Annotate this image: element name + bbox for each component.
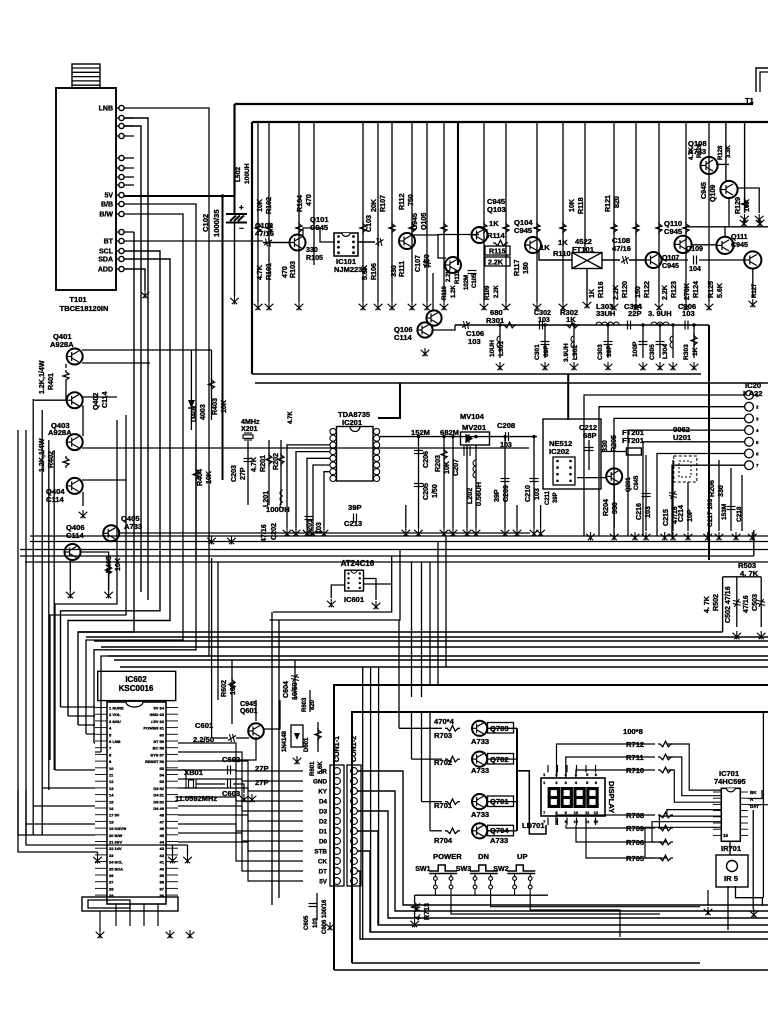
svg-text:MV104: MV104	[460, 412, 485, 421]
transistor Q109 C945	[720, 181, 737, 198]
svg-text:2 VOL: 2 VOL	[109, 712, 121, 717]
svg-text:2.2K: 2.2K	[446, 269, 452, 282]
svg-text:SDA: SDA	[98, 257, 113, 264]
svg-text:22P: 22P	[628, 309, 642, 318]
svg-text:BC 58: BC 58	[153, 746, 165, 751]
wire Q109 drop	[725, 122, 727, 181]
svg-text:C945: C945	[634, 475, 640, 490]
svg-text:C105: C105	[472, 273, 478, 288]
ground	[327, 599, 336, 607]
svg-text:53: 53	[160, 779, 165, 784]
svg-text:R713: R713	[423, 903, 431, 920]
svg-text:R301: R301	[486, 316, 505, 325]
ground	[704, 907, 713, 915]
wire Q405 out	[119, 532, 530, 534]
svg-text:4. 7K: 4. 7K	[414, 902, 422, 920]
wire IR701 pins	[727, 886, 729, 930]
resistor R403 10K	[211, 350, 213, 420]
svg-text:1K: 1K	[558, 238, 568, 247]
capacitor C215 47/16	[672, 460, 674, 531]
resistor R713 4.7K	[414, 895, 416, 902]
capacitor C301 69P stub	[544, 325, 546, 358]
resistor R704	[445, 828, 460, 834]
wire thick drop x458	[457, 122, 459, 265]
transistor Q104 C945	[525, 237, 541, 253]
tuner unused pin stubs	[124, 117, 134, 119]
svg-text:IR 5: IR 5	[724, 874, 739, 883]
svg-text:5V: 5V	[104, 193, 113, 200]
svg-text:682M: 682M	[440, 428, 459, 437]
svg-text:IC202: IC202	[549, 447, 569, 456]
grounds NE512 row	[586, 532, 595, 540]
svg-text:330: 330	[306, 246, 318, 254]
ground	[740, 218, 749, 226]
capacitor C218 153M	[730, 468, 732, 531]
capacitor C210 103	[533, 437, 535, 505]
transistor Q702 A733	[472, 752, 487, 767]
svg-text:D401: D401	[190, 405, 198, 422]
wire top supply bus	[235, 103, 754, 105]
display pin stubs bottom	[547, 818, 549, 826]
svg-text:R206: R206	[708, 480, 716, 497]
grounds under drops	[254, 302, 263, 310]
svg-text:10K: 10K	[114, 557, 122, 571]
wire Q110-Q111 tie	[691, 244, 717, 246]
svg-text:/-5V 62: /-5V 62	[151, 719, 165, 724]
grounds under IC602	[96, 930, 105, 938]
svg-text:330: 330	[390, 265, 398, 277]
svg-text:27P: 27P	[239, 467, 247, 480]
wire feeds into IC602 left	[61, 706, 96, 708]
ground	[230, 296, 239, 304]
transistor Q404 C114	[67, 478, 83, 494]
svg-text:Q109: Q109	[709, 185, 717, 202]
wire XB01 wiring	[166, 770, 186, 779]
boxed resistor R115	[485, 246, 510, 255]
svg-text:10K: 10K	[205, 470, 213, 484]
wire switch staircase 3	[530, 895, 620, 937]
svg-text:47/16: 47/16	[255, 229, 274, 238]
svg-text:R703: R703	[434, 731, 452, 740]
svg-text:R119: R119	[442, 285, 448, 300]
svg-text:R502: R502	[712, 594, 720, 611]
svg-text:D4: D4	[319, 799, 328, 806]
svg-text:R106: R106	[370, 263, 378, 280]
svg-text:60: 60	[160, 732, 165, 737]
grounds left lower	[93, 855, 102, 863]
svg-text:ADD: ADD	[98, 267, 113, 274]
svg-text:GND 63: GND 63	[150, 712, 165, 717]
svg-text:C218: C218	[736, 506, 743, 522]
svg-text:2.2K: 2.2K	[661, 284, 669, 300]
display pin stubs top	[547, 765, 549, 772]
svg-text:R129: R129	[734, 197, 742, 214]
svg-text:4.7K: 4.7K	[689, 147, 695, 160]
svg-text:Q201: Q201	[626, 477, 632, 492]
svg-text:POWER 61: POWER 61	[143, 726, 164, 731]
svg-text:103: 103	[644, 506, 652, 518]
svg-text:150: 150	[634, 286, 642, 298]
svg-text:MV201: MV201	[462, 423, 487, 432]
svg-text:15: 15	[109, 799, 114, 804]
wire nested bundle from mid to right	[55, 420, 117, 770]
svg-text:3 6/4U: 3 6/4U	[109, 719, 121, 724]
svg-text:IC201: IC201	[342, 418, 362, 427]
wire nested frame bottoms	[357, 771, 768, 905]
svg-text:17 5V: 17 5V	[109, 813, 120, 818]
svg-text:54: 54	[160, 773, 165, 778]
svg-text:100P: 100P	[632, 341, 639, 357]
capacitor C103 47/16 series	[376, 238, 384, 246]
svg-text:39P: 39P	[553, 492, 559, 503]
svg-text:103: 103	[315, 522, 323, 534]
svg-text:47/16: 47/16	[742, 595, 750, 613]
wire BT line (signal row feed)	[124, 240, 263, 242]
wire Q105 link	[438, 235, 446, 258]
svg-text:Q105: Q105	[420, 213, 428, 230]
transistor Q110 C945	[674, 236, 691, 253]
ground	[749, 909, 758, 917]
svg-text:C114: C114	[394, 333, 413, 342]
svg-text:12: 12	[109, 779, 114, 784]
resistor R602 10K	[231, 660, 233, 724]
ground	[757, 631, 766, 639]
svg-text:R602: R602	[220, 680, 228, 697]
svg-text:10K: 10K	[568, 198, 576, 212]
svg-text:R118: R118	[577, 197, 585, 214]
wire CON1 row feeds from IC602	[178, 743, 303, 771]
ground	[104, 590, 113, 598]
wire Q101 collector to IC101	[303, 228, 334, 242]
resistor R303 1K stub	[693, 325, 695, 358]
svg-text:4.7K: 4.7K	[288, 411, 294, 424]
svg-text:Q107: Q107	[662, 254, 679, 262]
wire Q111 feed	[724, 227, 726, 237]
capacitor C201 103	[305, 517, 314, 520]
ground	[141, 290, 150, 298]
wire mid verticals	[398, 620, 400, 712]
resistor R114 1K	[493, 240, 508, 246]
ground	[66, 590, 75, 598]
wire R712 row	[557, 744, 656, 778]
svg-text:1/50: 1/50	[431, 484, 439, 498]
inductor L304 stub	[672, 325, 674, 358]
svg-text:R204: R204	[602, 499, 610, 516]
wire switch staircase 2	[451, 895, 660, 914]
svg-text:10: 10	[574, 819, 579, 824]
svg-text:330: 330	[717, 485, 725, 497]
capacitor C216 103	[645, 455, 647, 531]
wire row2 right end down	[708, 325, 710, 560]
wire FT101 out	[602, 259, 620, 261]
svg-text:ST 59: ST 59	[153, 739, 164, 744]
svg-text:3. 9UH: 3. 9UH	[648, 309, 672, 318]
svg-text:470: 470	[281, 266, 289, 278]
svg-text:C605: C605	[304, 915, 310, 930]
F-connector on tuner	[72, 64, 100, 88]
svg-text:A928A: A928A	[48, 428, 72, 437]
svg-text:L202: L202	[466, 488, 474, 504]
wire Q403 out	[82, 447, 529, 449]
svg-text:R115: R115	[489, 248, 506, 256]
svg-text:SW3: SW3	[456, 865, 471, 873]
wire RF signal row	[263, 242, 290, 244]
svg-text:C203: C203	[230, 465, 238, 482]
svg-text:74HC595: 74HC595	[714, 777, 746, 786]
svg-text:1K: 1K	[540, 243, 550, 252]
svg-text:46: 46	[160, 826, 165, 831]
svg-text:103: 103	[533, 488, 541, 500]
resistor R301 zigzag	[502, 322, 517, 328]
wire Q104 out to FT101 row	[539, 251, 572, 260]
svg-text:C503: C503	[751, 594, 759, 611]
svg-text:180: 180	[522, 262, 530, 274]
svg-text:69P: 69P	[543, 345, 550, 357]
svg-text:L302: L302	[572, 345, 579, 360]
inductor L202 0.56UH	[475, 445, 477, 505]
svg-text:4003: 4003	[199, 404, 207, 420]
display pin numbers	[543, 772, 599, 824]
transistor Q704 A733	[472, 823, 487, 838]
resistor R404 10K	[195, 440, 197, 560]
wire verticals into display section	[362, 667, 364, 940]
capacitor C206	[418, 437, 420, 470]
svg-text:U201: U201	[673, 433, 692, 442]
svg-text:20K: 20K	[370, 198, 378, 212]
ground	[207, 536, 216, 544]
svg-text:270K: 270K	[683, 282, 691, 300]
svg-text:R105: R105	[306, 254, 323, 262]
svg-text:1N4148: 1N4148	[282, 730, 288, 752]
svg-text:STB: STB	[314, 849, 327, 856]
ground	[755, 214, 764, 222]
IC701 side pin stubs	[713, 792, 748, 835]
svg-text:38: 38	[160, 880, 165, 885]
switch contact circles	[434, 874, 533, 889]
wire outer bottom lines	[334, 969, 768, 971]
svg-text:C208: C208	[497, 421, 515, 430]
ground	[326, 922, 335, 930]
wire IC201 left pin fan	[287, 445, 330, 528]
svg-text:D0: D0	[319, 839, 328, 846]
wire Q106 out	[432, 325, 455, 330]
svg-text:103: 103	[500, 441, 512, 449]
capacitor C502	[733, 599, 741, 607]
svg-text:POWER: POWER	[433, 852, 462, 861]
svg-text:R403: R403	[211, 398, 219, 415]
transistor Q405 A733	[103, 525, 119, 541]
wire Q404 stub right	[82, 479, 126, 481]
svg-text:10/50: 10/50	[291, 682, 299, 700]
ground	[293, 756, 302, 764]
svg-text:−: −	[239, 224, 244, 233]
transistor Q105	[445, 257, 461, 273]
wire SDA line down	[68, 259, 170, 716]
wire Q404 link	[82, 492, 84, 506]
capacitor C106 103 series	[462, 321, 470, 329]
svg-text:10K: 10K	[256, 198, 264, 212]
resistor R206 330	[718, 460, 720, 531]
transistor Q112	[744, 251, 761, 268]
wire RF box bottom	[252, 373, 701, 375]
svg-text:10K: 10K	[220, 399, 228, 413]
svg-text:B/B: B/B	[101, 202, 113, 209]
svg-text:4.7K: 4.7K	[250, 456, 258, 472]
wire display section inner frame	[352, 712, 768, 963]
IC IC201 TDA8735	[337, 427, 374, 482]
svg-text:27P: 27P	[255, 764, 269, 773]
resistor R603 820	[309, 690, 311, 712]
capacitor C214 10P	[687, 482, 689, 531]
node T1 connector top right	[756, 68, 768, 92]
svg-text:18: 18	[109, 819, 114, 824]
ground	[227, 536, 236, 544]
svg-text:C502 47/16: C502 47/16	[724, 586, 732, 623]
svg-text:BK: BK	[750, 790, 757, 795]
svg-text:R401: R401	[47, 373, 55, 390]
wire B/B line down	[94, 204, 196, 743]
transistor Q401 A928A	[67, 349, 83, 365]
wire Q112 stub	[752, 268, 754, 298]
svg-text:T1: T1	[745, 96, 755, 105]
resistor R701	[445, 799, 460, 805]
svg-text:39: 39	[160, 873, 165, 878]
capacitor C109 104	[661, 259, 688, 261]
capacitor C102 electrolytic 1000/35	[234, 196, 236, 213]
svg-text:1K: 1K	[588, 288, 596, 298]
svg-text:D3 52: D3 52	[153, 786, 164, 791]
inductor L302 3.9UH stub	[573, 325, 575, 358]
svg-text:FT201: FT201	[622, 436, 645, 445]
svg-text:1K: 1K	[692, 347, 699, 356]
wire collector row	[686, 226, 768, 228]
svg-text:3.3K: 3.3K	[726, 145, 732, 158]
svg-text:1 NURE: 1 NURE	[109, 706, 124, 711]
svg-text:AT24C16: AT24C16	[341, 559, 375, 568]
transistor Q102 C945	[399, 233, 415, 249]
svg-text:R704: R704	[434, 836, 453, 845]
display digits 8888 (seven-segment)	[548, 787, 560, 808]
svg-text:LNB: LNB	[99, 106, 113, 113]
svg-text:C107: C107	[414, 255, 422, 272]
capacitor C107	[423, 260, 431, 268]
capacitor C302	[540, 321, 543, 330]
wire left vertical bundle	[17, 430, 19, 835]
svg-text:C202: C202	[270, 523, 278, 540]
svg-text:C305: C305	[649, 344, 656, 360]
svg-text:102M: 102M	[464, 275, 470, 290]
wire left edge of RF box	[251, 122, 253, 374]
svg-text:D601: D601	[304, 737, 310, 752]
svg-text:26: 26	[109, 873, 114, 878]
svg-text:40: 40	[160, 866, 165, 871]
svg-text:C945: C945	[662, 262, 679, 270]
svg-text:68P: 68P	[583, 431, 597, 440]
svg-text:R103: R103	[289, 261, 297, 278]
svg-text:1.2K: 1.2K	[451, 285, 457, 298]
svg-text:820: 820	[613, 196, 621, 208]
wire IR701 to IC701	[729, 841, 731, 855]
svg-text:KY: KY	[318, 789, 328, 796]
wire corner up right	[753, 530, 755, 556]
svg-text:R121: R121	[604, 195, 612, 212]
svg-text:10K: 10K	[443, 460, 451, 474]
svg-text:470*4: 470*4	[434, 717, 455, 726]
svg-text:A733: A733	[471, 810, 489, 819]
svg-text:27: 27	[109, 880, 114, 885]
resistor R204 330	[613, 484, 615, 528]
svg-text:R202: R202	[272, 453, 280, 470]
diode D601 1N4148	[291, 725, 303, 747]
wire IC20x pin fan	[584, 395, 745, 536]
wire display section outer frame	[334, 685, 768, 970]
svg-text:16: 16	[109, 806, 114, 811]
wire FT101 bottom lead	[586, 269, 588, 301]
svg-text:5V 64: 5V 64	[154, 706, 165, 711]
svg-text:R122: R122	[643, 281, 651, 298]
small box bottom left	[82, 897, 178, 911]
IC IC602 label box	[98, 671, 176, 700]
svg-text:R102: R102	[265, 197, 273, 214]
svg-text:1.2K,1/4W: 1.2K,1/4W	[38, 360, 46, 394]
transistor Q201 C945	[606, 468, 622, 484]
svg-text:D5 50: D5 50	[153, 799, 164, 804]
svg-text:R203: R203	[434, 455, 442, 472]
wire Q102 to Q103	[413, 234, 479, 237]
svg-text:C945: C945	[664, 227, 683, 236]
svg-text:D6 49: D6 49	[153, 806, 164, 811]
svg-text:Q402: Q402	[92, 393, 100, 410]
svg-text:A733: A733	[471, 737, 489, 746]
wire Q601 wiring	[255, 700, 257, 721]
wire MV201 drop	[466, 445, 468, 528]
wire 5V feed from tuner	[124, 195, 235, 197]
wire feeds down to C601/XB01	[211, 558, 213, 738]
svg-text:C207: C207	[452, 459, 460, 476]
svg-text:D1: D1	[319, 829, 328, 836]
wire resistor outputs to IC701 with bends	[667, 744, 721, 790]
svg-text:4.7K: 4.7K	[256, 264, 264, 280]
svg-text:33UH: 33UH	[596, 309, 615, 318]
svg-text:+: +	[239, 203, 244, 212]
capacitor C605 103	[316, 893, 318, 920]
wire vertical pair through Q601 area	[271, 612, 273, 905]
svg-text:37: 37	[160, 886, 165, 891]
svg-text:SCL: SCL	[99, 249, 114, 256]
svg-text:22 14V: 22 14V	[109, 846, 122, 851]
svg-text:R120: R120	[621, 281, 629, 298]
svg-text:R113: R113	[455, 269, 461, 284]
svg-text:R127: R127	[752, 283, 758, 298]
svg-text:4. 7K: 4. 7K	[740, 569, 759, 578]
svg-text:100UH: 100UH	[244, 163, 251, 184]
svg-text:L502: L502	[235, 167, 242, 182]
svg-text:C606 100/16: C606 100/16	[322, 899, 328, 934]
svg-text:C211: C211	[545, 490, 551, 505]
svg-text:10: 10	[109, 766, 114, 771]
svg-text:R111: R111	[398, 261, 406, 277]
svg-text:1K: 1K	[489, 219, 499, 228]
resistor marks on drops	[255, 222, 261, 234]
ground	[740, 214, 749, 222]
wire Q201 to NE512	[577, 477, 606, 479]
svg-text:5V: 5V	[319, 879, 328, 886]
resistor R302	[565, 322, 580, 328]
svg-text:DT: DT	[319, 869, 328, 876]
wire B/W line down	[86, 214, 183, 734]
wire lower bus under RF box	[255, 382, 768, 384]
wire left bundle lower	[18, 790, 98, 852]
